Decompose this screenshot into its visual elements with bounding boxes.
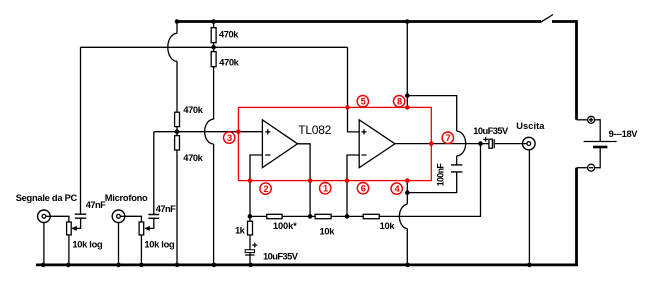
svg-text:1: 1 xyxy=(323,184,328,194)
svg-text:100k*: 100k* xyxy=(273,221,297,231)
svg-text:10uF35V: 10uF35V xyxy=(263,252,299,262)
svg-text:10k: 10k xyxy=(320,227,336,237)
svg-text:Microfono: Microfono xyxy=(105,193,148,203)
svg-text:1k: 1k xyxy=(235,225,246,235)
svg-text:7: 7 xyxy=(446,133,451,143)
svg-text:10k: 10k xyxy=(380,221,396,231)
svg-text:10k log: 10k log xyxy=(144,239,175,249)
svg-text:Uscita: Uscita xyxy=(516,121,545,131)
svg-text:47nF: 47nF xyxy=(86,200,106,210)
svg-text:5: 5 xyxy=(361,97,366,107)
svg-text:10uF35V: 10uF35V xyxy=(473,126,509,136)
svg-text:8: 8 xyxy=(397,97,402,107)
svg-text:10k log: 10k log xyxy=(72,239,103,249)
svg-text:9---18V: 9---18V xyxy=(609,129,639,139)
svg-text:470k: 470k xyxy=(183,105,203,115)
svg-text:47nF: 47nF xyxy=(156,204,176,214)
svg-text:6: 6 xyxy=(361,184,366,194)
svg-text:470k: 470k xyxy=(183,153,203,163)
svg-text:470k: 470k xyxy=(219,58,239,68)
svg-text:3: 3 xyxy=(227,133,232,143)
svg-text:2: 2 xyxy=(263,184,268,194)
svg-text:Segnale da PC: Segnale da PC xyxy=(16,193,78,203)
svg-text:470k: 470k xyxy=(219,29,239,39)
svg-text:100nF: 100nF xyxy=(436,163,446,187)
svg-text:TL082: TL082 xyxy=(298,123,331,137)
